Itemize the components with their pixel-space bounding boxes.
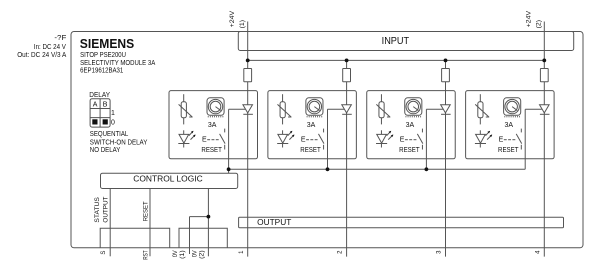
svg-text:3A: 3A [307,122,316,129]
svg-text:3A: 3A [505,122,514,129]
svg-text:A: A [93,102,98,109]
svg-text:SITOP PSE200U: SITOP PSE200U [80,52,126,59]
svg-text:NO DELAY: NO DELAY [90,147,121,154]
svg-text:(2): (2) [200,250,206,259]
svg-text:+24V: +24V [526,10,533,27]
svg-text:SIEMENS: SIEMENS [80,36,135,51]
svg-text:RESET: RESET [201,147,222,154]
svg-text:SEQUENTIAL: SEQUENTIAL [90,131,129,138]
svg-text:E: E [499,136,504,143]
svg-text:OUTPUT: OUTPUT [257,218,291,227]
svg-text:6EP19612BA31: 6EP19612BA31 [80,68,123,75]
svg-text:3A: 3A [406,122,415,129]
svg-text:Out: DC 24 V/3 A: Out: DC 24 V/3 A [17,52,66,59]
svg-text:RST: RST [144,250,150,260]
svg-text:SWITCH-ON DELAY: SWITCH-ON DELAY [90,140,148,147]
svg-text:3A: 3A [208,122,217,129]
svg-text:(1): (1) [239,20,246,28]
svg-text:1: 1 [111,110,115,117]
svg-text:+24V: +24V [229,10,236,27]
svg-text:RESET: RESET [300,147,321,154]
svg-text:RESET: RESET [498,147,519,154]
svg-text:INPUT: INPUT [382,36,410,47]
svg-text:OUTPUT: OUTPUT [102,197,109,223]
svg-text:E: E [202,136,207,143]
svg-text:RESET: RESET [399,147,420,154]
svg-text:In: DC 24 V: In: DC 24 V [34,44,66,51]
svg-text:0V: 0V [192,250,198,257]
svg-text:RESET: RESET [142,201,149,221]
svg-text:(1): (1) [180,250,186,259]
svg-text:B: B [103,102,108,109]
svg-text:DELAY: DELAY [89,92,110,99]
svg-text:E: E [301,136,306,143]
svg-text:STATUS: STATUS [94,196,101,222]
svg-text:0V: 0V [173,250,179,257]
svg-text:(2): (2) [535,20,542,28]
svg-text:0: 0 [111,119,115,126]
svg-text:S: S [101,251,107,255]
svg-text:E: E [400,136,405,143]
svg-text:CONTROL LOGIC: CONTROL LOGIC [133,174,203,183]
svg-text:SELECTIVITY MODULE 3A: SELECTIVITY MODULE 3A [80,60,155,67]
svg-text:-?F: -?F [54,35,66,42]
